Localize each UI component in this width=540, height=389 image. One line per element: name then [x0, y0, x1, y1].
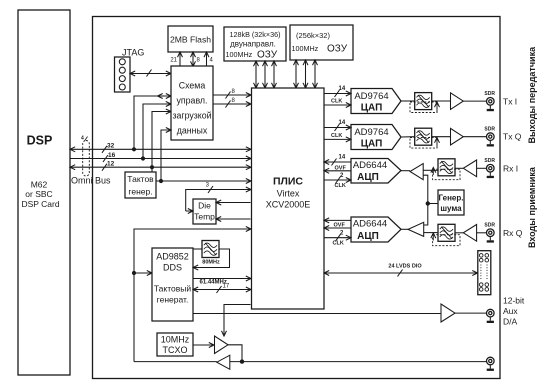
ADC AD6644 Rx I	[351, 159, 401, 184]
filter Tx I	[410, 93, 437, 113]
wire Omni bus addr 16	[71, 152, 251, 162]
svg-text:2: 2	[340, 173, 344, 179]
svg-text:AD9852: AD9852	[156, 252, 189, 262]
svg-text:AD9764: AD9764	[354, 91, 388, 102]
DAC AD9764 Tx Q	[351, 125, 401, 150]
svg-text:CLK: CLK	[331, 133, 342, 139]
wire main clock distribution to FPGA	[134, 229, 251, 362]
amp Rx Q b	[463, 225, 476, 242]
svg-text:АЦП: АЦП	[357, 172, 379, 183]
wire FPGA to DAC2 data 14	[324, 120, 351, 131]
amp Rx I b	[463, 160, 476, 177]
svg-text:12-bit: 12-bit	[503, 296, 525, 306]
svg-text:Тактовый: Тактовый	[154, 284, 192, 294]
connector Rx I SDR	[484, 158, 495, 178]
connector external clock	[487, 357, 495, 371]
amp Tx Q	[451, 128, 464, 145]
main board outline	[93, 17, 501, 379]
svg-text:Omni Bus: Omni Bus	[71, 176, 111, 186]
svg-text:генер.: генер.	[128, 187, 152, 197]
ADC AD6644 Rx Q	[351, 217, 401, 242]
wire dietemp bus 3 to FPGA	[186, 183, 251, 212]
svg-text:SDR: SDR	[484, 158, 495, 164]
node external clock junction	[240, 359, 244, 363]
wire clock to DDS	[134, 272, 152, 274]
wire filter to amp Rx I b	[455, 167, 463, 169]
wire ADC2 OVF to FPGA	[325, 223, 352, 229]
wire noise gen output	[428, 203, 438, 205]
svg-text:генерат.: генерат.	[157, 295, 189, 305]
wire external clock line	[230, 361, 487, 363]
wire ADC2 data to FPGA	[325, 219, 352, 221]
wire filter to amp Rx Q b	[455, 232, 463, 234]
svg-text:JTAG: JTAG	[122, 48, 144, 58]
svg-text:ЦАП: ЦАП	[361, 139, 383, 150]
wire bus16 to loader	[143, 104, 171, 159]
svg-text:DSP: DSP	[27, 134, 53, 148]
svg-text:OVF: OVF	[334, 223, 346, 229]
FPGA U1 Virtex XCV2000E	[252, 88, 325, 309]
svg-text:TCXO: TCXO	[162, 345, 187, 355]
wire amp to connector Tx I	[463, 100, 486, 102]
svg-text:16: 16	[108, 152, 116, 159]
svg-text:ЦАП: ЦАП	[361, 103, 383, 114]
svg-text:M62: M62	[31, 180, 48, 190]
svg-text:12: 12	[107, 161, 115, 168]
svg-text:8: 8	[232, 89, 236, 95]
Die Temp sensor block	[193, 199, 216, 224]
DSP card block M62	[18, 10, 70, 375]
svg-text:OVF: OVF	[335, 165, 347, 171]
wire noise to Rx Q amp	[424, 204, 428, 226]
svg-text:SDR: SDR	[484, 222, 495, 228]
wire connector to amp Rx Q	[477, 232, 487, 234]
wire filter F1 back to DDS	[194, 249, 230, 268]
svg-text:Rx Q: Rx Q	[503, 228, 523, 238]
wire DAC2 to filter	[401, 136, 415, 138]
wire ADC1 OVF to FPGA	[325, 165, 352, 171]
svg-text:100MHz: 100MHz	[226, 50, 253, 59]
wire DDS control 17	[194, 283, 251, 293]
wire FPGA clk 2 to ADC1	[324, 173, 351, 189]
wire buffer A1 output	[228, 345, 242, 362]
filter Rx Q	[433, 224, 460, 245]
svg-text:CLK: CLK	[335, 183, 346, 189]
svg-text:ПЛИС: ПЛИС	[273, 176, 303, 188]
node noise junction	[426, 201, 430, 205]
wire DDS aux DAC output	[193, 313, 441, 315]
svg-text:(256k×32): (256k×32)	[296, 31, 330, 40]
filter 80MHz F1	[202, 241, 220, 266]
filter Rx I	[433, 159, 460, 180]
svg-text:21: 21	[170, 58, 177, 64]
svg-text:AD6644: AD6644	[353, 218, 387, 229]
svg-text:17: 17	[223, 283, 230, 289]
wire Omni bus ctrl 12	[71, 161, 251, 171]
node clockgen junction	[159, 179, 163, 183]
wire FPGA to DAC1 data 14	[324, 86, 351, 97]
wire FPGA clk 2 to ADC2	[324, 231, 351, 247]
wire amp to connector Tx Q	[463, 136, 486, 138]
wire bus12 to loader	[152, 112, 171, 168]
connector LVDS DIO	[478, 251, 491, 295]
wire RAM1-FPGA a	[255, 62, 257, 88]
svg-text:4: 4	[81, 136, 84, 142]
wire flash data 8	[193, 53, 201, 67]
wire flash ctrl 4	[207, 53, 214, 67]
DAC AD9764 Tx I	[351, 89, 401, 114]
wire clockgen to FPGA	[156, 180, 251, 182]
svg-text:ОЗУ: ОЗУ	[327, 44, 348, 55]
node bus12 junction	[150, 165, 154, 169]
svg-text:Temp: Temp	[194, 212, 215, 222]
svg-text:14: 14	[339, 120, 346, 126]
wire amp to filter Rx I	[423, 169, 438, 171]
node clock to DDS junction	[132, 271, 136, 275]
svg-text:CLK: CLK	[333, 241, 344, 247]
svg-text:управл.: управл.	[177, 96, 208, 106]
clock buffer amp A2	[217, 355, 230, 369]
svg-text:шума: шума	[440, 204, 462, 213]
svg-text:Входы приемника: Входы приемника	[527, 166, 537, 248]
svg-text:Схема: Схема	[179, 81, 206, 91]
svg-text:Выходы передатчика: Выходы передатчика	[527, 46, 537, 144]
label 12-bit Aux D/A	[503, 296, 525, 327]
svg-text:D/A: D/A	[503, 317, 518, 327]
amp Aux DA	[441, 304, 455, 322]
wire loader to FPGA 8b	[213, 98, 251, 108]
svg-text:загрузкой: загрузкой	[172, 111, 211, 121]
svg-text:2MB Flash: 2MB Flash	[170, 35, 211, 45]
wire FPGA to dietemp a	[217, 202, 251, 204]
svg-text:двунаправл.: двунаправл.	[230, 40, 276, 49]
RAM 128kB dual-port	[224, 27, 286, 61]
wire FPGA to dietemp b	[217, 218, 251, 220]
svg-text:AD6644: AD6644	[353, 160, 387, 171]
wire connector to amp Rx I	[477, 167, 487, 169]
wire bus12 to clockgen	[151, 167, 153, 172]
wire FPGA clock select	[224, 305, 251, 336]
svg-text:данных: данных	[177, 126, 208, 136]
svg-text:32: 32	[107, 143, 115, 150]
svg-text:10MHz: 10MHz	[161, 335, 190, 345]
RAM 256k x32	[290, 25, 353, 60]
svg-text:DSP Card: DSP Card	[21, 199, 59, 209]
svg-text:or SBC: or SBC	[25, 189, 52, 199]
svg-text:Генер.: Генер.	[439, 194, 464, 203]
clock generator block	[125, 172, 156, 198]
wire amp to Aux connector	[455, 312, 487, 314]
TCXO 10MHz block	[157, 333, 193, 356]
connector Tx Q SDR	[484, 126, 495, 146]
amp Rx Q a	[408, 222, 424, 236]
svg-text:АЦП: АЦП	[357, 231, 379, 242]
wire RAM2-FPGA a	[295, 61, 297, 88]
svg-text:80MHz: 80MHz	[202, 260, 220, 266]
clock buffer amp A1	[215, 336, 229, 354]
wire RAM1-FPGA b	[264, 62, 266, 88]
svg-text:SDR: SDR	[484, 91, 495, 97]
JTAG connector J1	[115, 57, 131, 92]
svg-text:XCV2000E: XCV2000E	[266, 200, 311, 210]
wire amp to filter Rx Q	[424, 232, 438, 234]
amp Rx I a	[410, 164, 423, 180]
wire flash addr 21	[170, 53, 180, 67]
wire RAM1-FPGA c	[273, 62, 275, 88]
wire ADC1 data 14 to FPGA	[325, 155, 352, 166]
svg-text:ОЗУ: ОЗУ	[257, 50, 278, 61]
node bus32 junction	[132, 147, 136, 151]
svg-text:3: 3	[206, 183, 210, 189]
data load control block	[171, 66, 213, 140]
svg-text:Tx I: Tx I	[503, 96, 517, 106]
wire ADC1 analog in	[401, 170, 410, 172]
wire filter to amp Tx Q	[432, 136, 451, 138]
svg-text:14: 14	[339, 155, 346, 161]
svg-text:Тактов: Тактов	[127, 174, 154, 184]
svg-text:24 LVDS DIO: 24 LVDS DIO	[388, 264, 422, 270]
wire ADC2 analog in	[401, 228, 408, 230]
wire DAC1 to filter	[401, 100, 415, 102]
wire TCXO to buffer	[193, 344, 214, 346]
flash memory 2MB	[168, 26, 213, 52]
connector Aux DA	[487, 309, 495, 323]
svg-text:CLK: CLK	[331, 99, 342, 105]
wire DDS to filter F1	[193, 248, 202, 250]
wire FPGA LVDS DIO 24	[325, 264, 478, 277]
wire FPGA to DAC2 clk	[324, 133, 351, 140]
wire Omni bus data 32	[71, 143, 251, 153]
svg-text:SDR: SDR	[484, 126, 495, 132]
svg-text:14: 14	[339, 86, 346, 92]
wire loader to FPGA 8a	[213, 89, 251, 99]
svg-text:Rx I: Rx I	[503, 163, 518, 173]
noise generator block	[438, 190, 464, 215]
wire bus32 to loader	[134, 96, 171, 149]
wire clockgen to loader	[161, 130, 171, 181]
svg-text:Die: Die	[198, 201, 211, 211]
connector Rx Q SDR	[484, 222, 495, 242]
svg-text:4: 4	[210, 58, 214, 64]
node bus16 junction	[141, 156, 145, 160]
svg-text:Tx Q: Tx Q	[503, 132, 522, 142]
svg-text:2: 2	[340, 231, 344, 237]
svg-text:DDS: DDS	[163, 263, 182, 273]
filter Tx Q	[410, 128, 437, 148]
wire RAM2-FPGA c	[314, 61, 316, 88]
svg-text:8: 8	[197, 58, 201, 64]
DDS AD9852 clock generator block	[152, 248, 193, 321]
wire RAM2-FPGA b	[305, 61, 307, 88]
wire FPGA to DAC1 clk	[324, 99, 351, 106]
svg-text:Virtex: Virtex	[277, 189, 300, 199]
wire filter to amp Tx I	[432, 100, 451, 102]
wire JTAG to loader	[131, 70, 171, 77]
wire DDS 61.44MHz to FPGA	[193, 279, 251, 286]
svg-text:Aux: Aux	[503, 306, 518, 316]
connector Tx I SDR	[484, 91, 495, 111]
wire buffer A2 output to clock riser	[134, 361, 217, 363]
wire noise to Rx I amp	[423, 175, 428, 203]
svg-text:128kB (32k×36): 128kB (32k×36)	[230, 30, 281, 39]
svg-text:100MHz: 100MHz	[292, 44, 319, 53]
svg-text:AD9764: AD9764	[354, 127, 388, 138]
svg-text:8: 8	[232, 98, 236, 104]
bus isolation dashed capsule	[81, 136, 89, 177]
amp Tx I	[451, 93, 464, 110]
